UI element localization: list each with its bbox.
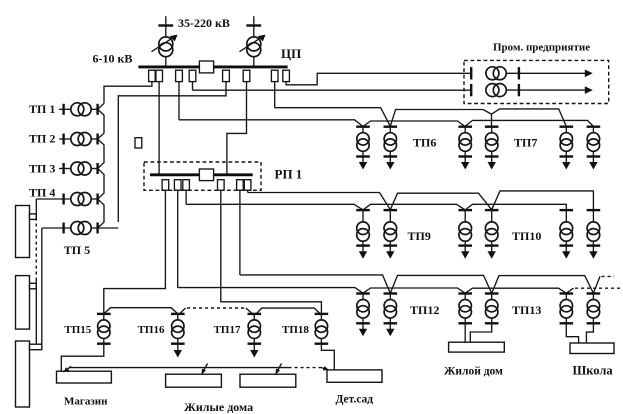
TP9 transformer 1 arrow bbox=[359, 246, 367, 259]
TP3 transformer bbox=[71, 162, 98, 175]
TP13 transformer 1 bbox=[458, 294, 472, 324]
TP3 lead and switch bbox=[59, 163, 71, 174]
TP7 transformer 1 arrow bbox=[461, 157, 469, 170]
apartment house building bbox=[449, 342, 505, 352]
residential house building 1 bbox=[166, 374, 222, 387]
feeder row1 lower (from Q3) bbox=[179, 120, 593, 127]
TP7 transformer 2 bbox=[485, 127, 499, 157]
svg-text:ТП 3: ТП 3 bbox=[29, 161, 55, 175]
TP15 transformer bbox=[97, 314, 111, 344]
svg-text:ТП 5: ТП 5 bbox=[64, 243, 90, 257]
label ТП10 bbox=[512, 229, 541, 243]
ЦП busbar bbox=[138, 65, 287, 68]
label ТП 4 bbox=[29, 186, 55, 200]
industrial feeder 1: transformer bbox=[486, 67, 506, 80]
wire Q5 to TP5 loop end bbox=[118, 82, 226, 222]
TP12 transformer 2 bbox=[384, 294, 398, 324]
feeder row2 lower (from F3) bbox=[186, 204, 566, 210]
building B bbox=[16, 276, 30, 330]
residential house building 2 bbox=[240, 374, 296, 387]
TP9 transformer 1 bbox=[356, 210, 370, 246]
label ТП6 bbox=[413, 136, 436, 150]
industrial feeder 1: switch bbox=[470, 67, 472, 79]
wire F5 to feeder TP12 upper bbox=[239, 190, 241, 275]
HV incoming line 2 bbox=[246, 16, 261, 37]
TP11 transformer 2 arrow bbox=[589, 246, 597, 259]
breaker Q5 bbox=[223, 70, 230, 81]
LV street line shop to houses bbox=[63, 366, 288, 372]
TP11 transformer 1 arrow bbox=[562, 246, 570, 259]
RP1 breaker F2 bbox=[174, 180, 181, 191]
svg-text:ТП17: ТП17 bbox=[214, 324, 241, 336]
wire F2 to feeder TP12 lower bbox=[177, 190, 179, 287]
TP4 transformer bbox=[71, 193, 98, 206]
industrial feeder 2: arrow bbox=[585, 86, 593, 94]
svg-text:Магазин: Магазин bbox=[64, 396, 108, 408]
TP8 transformer 2 bbox=[587, 127, 601, 157]
label ТП9 bbox=[408, 229, 431, 243]
svg-text:ТП 2: ТП 2 bbox=[29, 131, 55, 145]
feeder row3 lower dashed reserve bbox=[575, 287, 622, 289]
svg-text:Школа: Школа bbox=[573, 364, 614, 378]
svg-text:35-220 кВ: 35-220 кВ bbox=[178, 16, 230, 30]
TP16 arrow bbox=[174, 345, 182, 358]
TP9 transformer 2 bbox=[384, 210, 398, 246]
building A service tap bbox=[30, 214, 37, 220]
industrial feeder 2: wire and switch bbox=[506, 84, 585, 96]
riser TP5 to building C bbox=[41, 228, 43, 344]
wire Q4 to industrial feeder 2 bbox=[192, 82, 194, 91]
label РП 1 bbox=[275, 167, 303, 182]
TP1-TP5 loop trunk bbox=[98, 103, 104, 228]
breaker Q8 bbox=[283, 70, 290, 81]
shop building bbox=[57, 371, 112, 383]
wire Q7 to feeder TP6 upper bbox=[274, 82, 276, 108]
svg-text:Дет.сад: Дет.сад bbox=[336, 393, 374, 405]
TP10 transformer 1 arrow bbox=[461, 246, 469, 259]
spare cubicle symbol bbox=[135, 138, 142, 148]
TP8 transformer 1 arrow bbox=[562, 157, 570, 170]
svg-text:ЦП: ЦП bbox=[281, 46, 301, 61]
riser building A-B bbox=[35, 199, 37, 278]
wire TP5 to loop riser bbox=[98, 227, 119, 229]
TP9 transformer 2 arrow bbox=[386, 246, 394, 259]
wire F1 to TP15 bbox=[104, 190, 166, 314]
svg-text:ТП12: ТП12 bbox=[410, 303, 439, 317]
wire TP13-1 to apartment house bbox=[464, 323, 466, 342]
RP1 bus sectionalizer bbox=[199, 169, 213, 181]
TP4 lead to building A and switch bbox=[36, 194, 71, 205]
wire F4 to TP18 bbox=[221, 190, 322, 314]
OLTC transformer T1 bbox=[152, 35, 178, 66]
TP2 transformer bbox=[71, 133, 98, 146]
open tie TP16-TP17 dashed bbox=[180, 308, 252, 314]
TP11 transformer 2 bbox=[587, 210, 601, 246]
label ТП13 bbox=[512, 303, 541, 317]
RP1 dashed box bbox=[144, 162, 261, 190]
building C service tap bbox=[30, 344, 42, 350]
svg-text:ТП 4: ТП 4 bbox=[29, 186, 55, 200]
svg-text:Пром. предприятие: Пром. предприятие bbox=[493, 42, 590, 54]
svg-text:6-10 кВ: 6-10 кВ bbox=[93, 52, 133, 66]
TP1 lead and switch bbox=[59, 104, 71, 115]
svg-text:ТП7: ТП7 bbox=[514, 136, 537, 150]
RP1 breaker F3 bbox=[183, 180, 190, 191]
wire Q2 to RP1 left input bbox=[158, 82, 160, 174]
RP1 breaker F4 bbox=[218, 180, 225, 191]
wire F6 to feeder TP9 upper bbox=[247, 190, 249, 192]
TP17 arrow bbox=[250, 345, 258, 358]
label Магазин bbox=[64, 396, 108, 408]
breaker Q7 bbox=[271, 70, 278, 81]
TP10 transformer 2 bbox=[485, 210, 499, 246]
label ТП18 bbox=[282, 324, 309, 336]
label ЦП bbox=[281, 46, 301, 61]
wire F3 to feeder TP9 lower bbox=[185, 190, 187, 204]
TP5 transformer bbox=[71, 222, 98, 235]
feeder row3 lower (from F2) bbox=[178, 288, 574, 294]
breaker Q6 bbox=[243, 70, 250, 81]
label Школа bbox=[573, 364, 614, 378]
school building bbox=[570, 343, 614, 354]
svg-text:ТП 1: ТП 1 bbox=[29, 102, 55, 116]
wire Q1 to TP1-TP5 trunk bbox=[104, 82, 152, 104]
wire TP14-1 to school bbox=[566, 323, 578, 343]
svg-text:РП 1: РП 1 bbox=[275, 167, 303, 182]
TP6 transformer 2 arrow bbox=[386, 157, 394, 170]
wire TP13-2 to apartment house bbox=[470, 323, 491, 342]
label Жилой дом bbox=[444, 366, 503, 378]
label ТП 2 bbox=[29, 131, 55, 145]
TP14 transformer 1 bbox=[560, 294, 574, 324]
TP8 transformer 2 arrow bbox=[589, 157, 597, 170]
TP12 transformer 1 bbox=[356, 294, 370, 324]
feeder row1 upper (from Q7) bbox=[275, 108, 567, 127]
TP13 transformer 2 bbox=[485, 294, 499, 324]
label ТП12 bbox=[410, 303, 439, 317]
label ТП17 bbox=[214, 324, 241, 336]
tie line TP17-TP18 bbox=[256, 308, 320, 314]
label ТП15 bbox=[64, 324, 91, 336]
feeder row3 upper dashed reserve bbox=[602, 275, 615, 277]
industrial feeder 1: wire and switch bbox=[506, 67, 585, 79]
label ТП16 bbox=[138, 324, 165, 336]
TP16 transformer bbox=[171, 314, 185, 344]
feeder row3 upper (from F5) bbox=[240, 275, 600, 293]
industrial feeder 1: arrow bbox=[585, 70, 593, 78]
TP12 transformer 2 arrow bbox=[386, 323, 394, 336]
street line arrow at house 1 bbox=[201, 364, 207, 375]
street line dashed to kindergarten bbox=[289, 366, 330, 370]
TP17 transformer bbox=[248, 314, 262, 344]
breaker Q1 bbox=[149, 70, 156, 81]
industrial feeder 2: wire from Q4 bbox=[193, 89, 472, 91]
svg-text:ТП18: ТП18 bbox=[282, 324, 309, 336]
TP11 transformer 1 bbox=[560, 210, 574, 246]
svg-text:Жилые дома: Жилые дома bbox=[184, 400, 253, 414]
RP1 breaker F5 bbox=[237, 180, 244, 191]
label 35-220 кВ bbox=[178, 16, 230, 30]
label 6-10 кВ bbox=[93, 52, 133, 66]
building B service tap bbox=[30, 283, 37, 289]
label ТП 3 bbox=[29, 161, 55, 175]
TP8 transformer 1 bbox=[560, 127, 574, 157]
building C bbox=[16, 341, 30, 407]
feeder row2 upper (from F6) bbox=[248, 191, 594, 210]
svg-text:Жилой дом: Жилой дом bbox=[444, 366, 503, 378]
TP5 lead to building C riser and switch bbox=[42, 223, 71, 234]
breaker Q3 bbox=[176, 70, 183, 81]
HV incoming line 1 bbox=[158, 16, 173, 37]
TP6 transformer 2 bbox=[384, 127, 398, 157]
street line arrow at house 2 bbox=[275, 364, 281, 375]
label ТП7 bbox=[514, 136, 537, 150]
svg-text:ТП16: ТП16 bbox=[138, 324, 165, 336]
label ТП 1 bbox=[29, 102, 55, 116]
industrial enterprise dashed box bbox=[464, 60, 609, 103]
wire TP18 to kindergarten bbox=[321, 344, 334, 370]
TP7 transformer 2 arrow bbox=[488, 157, 496, 170]
svg-text:ТП10: ТП10 bbox=[512, 229, 541, 243]
TP6 transformer 1 bbox=[356, 127, 370, 157]
label Пром. предприятие bbox=[493, 42, 590, 54]
industrial feeder 2: switch bbox=[470, 84, 472, 96]
industrial feeder 2: transformer bbox=[486, 84, 506, 97]
label Жилые дома bbox=[184, 400, 253, 414]
TP10 transformer 2 arrow bbox=[488, 246, 496, 259]
svg-text:ТП13: ТП13 bbox=[512, 303, 541, 317]
wire Q6 to RP1 right input bbox=[227, 82, 247, 174]
OLTC transformer T2 bbox=[240, 35, 266, 66]
TP6 transformer 1 arrow bbox=[359, 157, 367, 170]
riser building B-C bbox=[35, 278, 37, 345]
svg-text:ТП6: ТП6 bbox=[413, 136, 436, 150]
breaker Q2 bbox=[156, 70, 163, 81]
wire TP14-2 to school bbox=[586, 323, 593, 343]
wire Q3 to feeder TP6 lower bbox=[178, 82, 180, 120]
TP14 transformer 2 bbox=[587, 294, 601, 324]
TP10 transformer 1 bbox=[458, 210, 472, 246]
breaker Q4 bbox=[189, 70, 196, 81]
wire TP15 to shop bbox=[61, 344, 104, 371]
tie line TP15-TP16 bbox=[104, 308, 178, 314]
TP7 transformer 1 bbox=[458, 127, 472, 157]
label ТП 5 bbox=[64, 243, 90, 257]
svg-text:ТП9: ТП9 bbox=[408, 229, 431, 243]
TP1 transformer bbox=[71, 103, 98, 116]
RP1 breaker F6 bbox=[244, 180, 251, 191]
bus sectionalizer switch bbox=[199, 61, 213, 73]
building A bbox=[16, 206, 30, 258]
label Дет.сад bbox=[336, 393, 374, 405]
TP18 transformer bbox=[315, 314, 329, 344]
TP2 lead and switch bbox=[59, 134, 71, 145]
wire Q8 to industrial feeder 1 bbox=[286, 73, 471, 85]
svg-text:ТП15: ТП15 bbox=[64, 324, 91, 336]
RP1 busbar bbox=[150, 173, 253, 176]
RP1 breaker F1 bbox=[162, 180, 169, 191]
kindergarten building bbox=[327, 370, 382, 382]
TP12 transformer 1 arrow bbox=[359, 323, 367, 336]
